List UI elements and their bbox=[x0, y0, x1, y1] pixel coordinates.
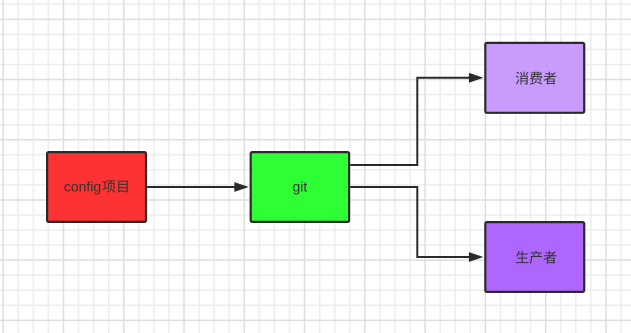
wire git→消费者 bbox=[350, 73, 483, 165]
label 生产者 bbox=[516, 251, 556, 264]
box 消费者 bbox=[485, 43, 584, 113]
wire segment config→git bbox=[147, 186, 235, 188]
box git bbox=[251, 152, 349, 222]
box config项目 bbox=[47, 152, 146, 222]
label 消费者 bbox=[516, 72, 557, 85]
node git (green box) bbox=[251, 152, 349, 222]
wire config→git bbox=[147, 182, 249, 192]
node 生产者 (purple box) bbox=[485, 222, 584, 292]
box 生产者 bbox=[485, 222, 584, 292]
arrowhead at git bbox=[234, 182, 249, 192]
svg-text:config: config bbox=[64, 179, 101, 195]
wire segments git→生产者 bbox=[350, 187, 469, 257]
node 消费者 (light purple box) bbox=[485, 43, 584, 113]
arrowhead at 生产者 bbox=[469, 252, 484, 262]
node config项目 (red box) bbox=[47, 152, 146, 222]
svg-text:git: git bbox=[293, 179, 308, 195]
wire segments git→消费者 bbox=[350, 78, 469, 165]
arrowhead at 消费者 bbox=[469, 73, 484, 83]
wire git→生产者 bbox=[350, 187, 483, 262]
